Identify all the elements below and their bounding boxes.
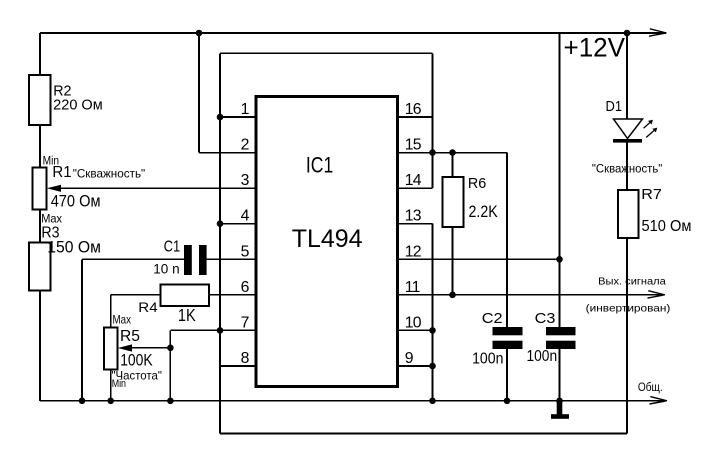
svg-text:R4: R4 [138, 300, 158, 315]
svg-text:100n: 100n [527, 348, 558, 365]
svg-text:R1: R1 [52, 164, 71, 181]
svg-text:Max: Max [41, 211, 62, 225]
svg-text:6: 6 [241, 279, 250, 296]
svg-text:C3: C3 [535, 311, 556, 327]
svg-text:100K: 100K [120, 351, 153, 370]
svg-text:Min: Min [112, 378, 126, 390]
svg-text:12: 12 [405, 243, 421, 260]
svg-text:1K: 1K [178, 305, 196, 325]
svg-text:100n: 100n [472, 351, 503, 368]
svg-text:220 Ом: 220 Ом [53, 98, 102, 114]
svg-text:13: 13 [405, 208, 422, 225]
svg-text:IC1: IC1 [306, 152, 333, 177]
svg-text:D1: D1 [606, 99, 623, 115]
svg-text:Вых. сигнала: Вых. сигнала [598, 277, 666, 288]
svg-text:470 Ом: 470 Ом [51, 192, 101, 211]
svg-text:15: 15 [405, 137, 422, 154]
svg-text:4: 4 [241, 208, 250, 225]
svg-text:7: 7 [241, 314, 249, 331]
svg-text:R7: R7 [641, 187, 662, 203]
svg-text:"Скважность": "Скважность" [592, 161, 662, 175]
svg-text:2: 2 [241, 137, 249, 154]
svg-text:10 n: 10 n [153, 262, 179, 277]
svg-text:TL494: TL494 [292, 225, 363, 253]
svg-text:10: 10 [405, 314, 422, 331]
svg-text:R5: R5 [120, 328, 140, 345]
svg-text:"Скважность": "Скважность" [73, 166, 146, 180]
svg-text:Max: Max [113, 314, 132, 327]
svg-text:8: 8 [241, 350, 250, 367]
svg-text:14: 14 [405, 172, 422, 189]
svg-text:R6: R6 [468, 175, 486, 192]
svg-text:3: 3 [241, 172, 250, 189]
svg-text:+12V: +12V [564, 31, 626, 62]
svg-text:5: 5 [241, 243, 250, 260]
svg-text:Общ.: Общ. [638, 382, 663, 394]
svg-text:2.2K: 2.2K [469, 202, 498, 221]
svg-text:C2: C2 [482, 311, 503, 327]
svg-text:16: 16 [405, 101, 422, 118]
svg-text:9: 9 [405, 350, 414, 367]
svg-text:11: 11 [405, 279, 421, 296]
svg-text:1: 1 [241, 101, 250, 118]
svg-text:510 Ом: 510 Ом [642, 218, 692, 235]
svg-text:150 Ом: 150 Ом [47, 238, 101, 257]
svg-text:(инвертирован): (инвертирован) [586, 304, 671, 315]
svg-text:C1: C1 [164, 239, 181, 256]
